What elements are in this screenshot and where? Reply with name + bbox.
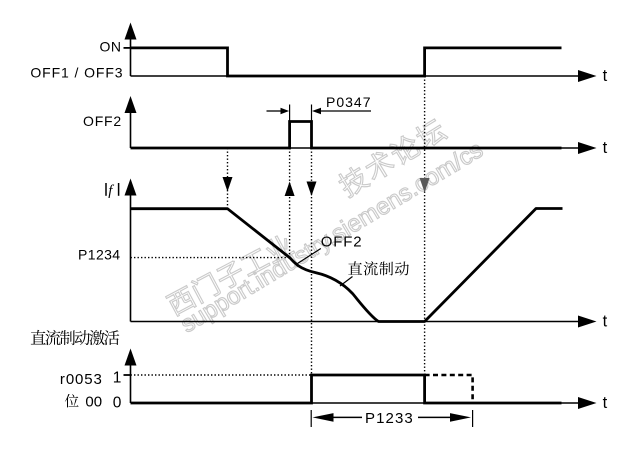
axis row4 time axis: [131, 402, 580, 404]
signal r0053 waveform: [131, 375, 562, 403]
signal ON/OFF1/OFF3 waveform: [131, 48, 562, 76]
svg-text:OFF2: OFF2: [83, 113, 122, 129]
svg-text:P1234: P1234: [78, 246, 120, 262]
dotted P1234 level line: [131, 257, 290, 259]
V4 gray down arrowhead: [420, 178, 430, 193]
V2 up arrowhead: [285, 182, 295, 197]
P1233 double arrow right part: [450, 413, 471, 422]
axis row3 time axis: [131, 321, 580, 323]
label wei (bit) 00: [65, 394, 79, 407]
P1233 double arrow left part: [313, 413, 334, 422]
axis row3 vertical axis: [130, 194, 132, 322]
svg-text:ON: ON: [100, 39, 122, 55]
r0053 level-1 tick: [124, 374, 131, 376]
V1 down arrowhead: [223, 177, 233, 192]
ON level tick: [124, 47, 131, 49]
svg-text:P0347: P0347: [326, 94, 371, 110]
axis row1 vertical axis: [130, 38, 132, 77]
OFF2 leader line: [298, 249, 321, 264]
axis row2 vertical axis: [130, 111, 132, 148]
svg-text:t: t: [603, 67, 608, 85]
watermark line 1: Siemens Chinese forum text: [165, 116, 488, 338]
signal OFF2 waveform with pulse: [131, 122, 562, 149]
svg-text:t: t: [603, 313, 608, 331]
label |f|: [105, 183, 107, 196]
svg-text:1: 1: [113, 370, 122, 387]
P0347 annotation: left arrow pointing right: [267, 110, 282, 112]
label DC braking (zhiliu zhidong): [348, 261, 362, 274]
axis row4 vertical axis: [130, 364, 132, 404]
svg-text:00: 00: [85, 393, 102, 410]
dotted line V4 from ON rising edge down to r0053 falling edge: [424, 76, 426, 375]
svg-text:t: t: [603, 139, 608, 157]
P1233 annotation: extent ticks: [310, 410, 312, 427]
axis row2 time axis: [131, 147, 580, 149]
label DC braking active (zhiliu zhidong jihuo): [31, 330, 46, 345]
V3 down arrowhead: [307, 182, 317, 197]
svg-text:t: t: [603, 394, 608, 412]
dotted r0053 level-1 line: [131, 374, 312, 376]
svg-text:OFF1 / OFF3: OFF1 / OFF3: [30, 65, 123, 81]
dashed r0053 extension pulse: [425, 375, 473, 403]
svg-text:0: 0: [113, 394, 122, 411]
dotted line V3 from OFF2 pulse end down to r0053 pulse: [311, 148, 313, 375]
DC braking leader line: [340, 277, 353, 287]
P0347 annotation: extension lines: [289, 105, 291, 122]
axis row1 time axis with arrow and t label: [131, 75, 580, 77]
svg-text:P1233: P1233: [365, 410, 414, 427]
dotted line V1 from OFF1 falling edge down to |f| top: [227, 148, 229, 209]
watermark line 2: support.industry.siemens.com/cs: [176, 136, 488, 338]
svg-text:OFF2: OFF2: [321, 233, 363, 250]
signal |f| frequency curve: [131, 209, 563, 322]
svg-text:r0053: r0053: [60, 371, 103, 388]
P0347 annotation: right arrow pointing left with tail: [321, 110, 372, 112]
dotted line V2 from OFF2 pulse start down to curve: [289, 148, 291, 258]
